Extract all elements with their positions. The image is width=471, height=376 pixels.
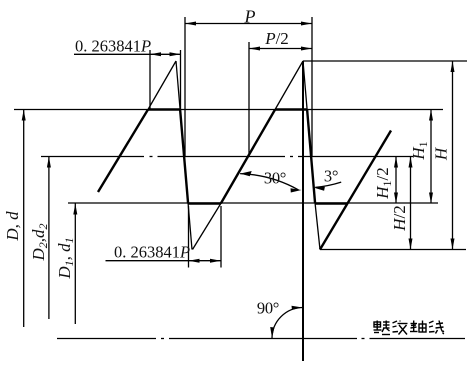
30deg flank third tooth down to sharp root [320, 131, 391, 250]
leader 0.263841P top [74, 53, 150, 55]
svg-text:D, d: D, d [3, 211, 22, 242]
svg-text:P/2: P/2 [264, 29, 289, 48]
thin extension 3deg from left apex [176, 61, 180, 110]
root flat left [188, 202, 221, 204]
leader 0.263841P bottom [106, 260, 189, 262]
dimension D2,d2 vertical [48, 157, 50, 320]
arrowheads 0.263841P top [150, 52, 161, 56]
arrowheads H [451, 61, 455, 72]
svg-text:0. 263841P: 0. 263841P [114, 243, 190, 262]
major diameter line [14, 109, 443, 111]
arrowhead D,d [22, 110, 26, 121]
thin vee left root (3deg side) [188, 204, 192, 250]
char zhou [410, 321, 426, 333]
dimension line 0.263841P bottom [189, 260, 222, 262]
extension crest flat left [149, 50, 151, 110]
dimension line 0.263841P top [150, 53, 181, 55]
arrowheads 0.263841P bottom [189, 259, 200, 263]
extension crest flat right [180, 50, 182, 110]
arrowhead 30deg arc left [240, 171, 252, 176]
char wen [393, 321, 408, 335]
thin extension 30deg to right apex [275, 61, 303, 110]
dimension H1/2 vertical [395, 157, 397, 204]
thread profile: left partial 30deg flank [98, 110, 148, 193]
extension root flat left [188, 206, 190, 268]
crest flat left tooth [148, 108, 180, 110]
30deg flank middle tooth [221, 110, 275, 204]
arrowhead 3deg arc [314, 187, 325, 191]
dimension H vertical [452, 61, 454, 250]
extension line P left [184, 17, 186, 157]
svg-text:H/2: H/2 [390, 205, 409, 232]
arrowheads H1/2 [394, 157, 398, 168]
arrowheads H/2 [409, 157, 413, 168]
char xian [429, 321, 444, 335]
svg-text:0. 263841P: 0. 263841P [75, 37, 151, 56]
arrowhead 30deg arc right [291, 188, 302, 192]
dimension D,d vertical [23, 110, 25, 328]
pitch line (dash-dot) [41, 156, 413, 158]
arrowheads P/2 [249, 47, 260, 51]
svg-text:H: H [432, 146, 451, 161]
root flat right [315, 202, 348, 204]
dimension H/2 vertical [410, 157, 412, 250]
char luo [374, 321, 391, 335]
thin vee right root (3deg side) [315, 204, 320, 250]
extension root flat right [220, 206, 222, 268]
thin extension 30deg to left apex [148, 61, 176, 110]
3deg flank right tooth [307, 110, 315, 204]
svg-text:3°: 3° [324, 167, 338, 186]
arc 90deg angle [272, 308, 303, 339]
arrowhead D2,d2 [47, 157, 51, 168]
arc 30deg angle [240, 174, 298, 190]
arrowhead 90deg arc bottom [270, 327, 274, 338]
extension line P/2 left [248, 42, 250, 157]
svg-text:P: P [244, 7, 256, 27]
dimension line P [185, 23, 312, 25]
thin vee left root (30deg side) [193, 204, 221, 250]
arc 3deg angle [315, 182, 341, 187]
label luo-wen-zhou-xian (CJK drawn strokes) [374, 321, 445, 335]
arrowheads P [185, 22, 196, 26]
sharp root reference line [320, 249, 466, 251]
svg-text:D1, d1: D1, d1 [55, 237, 76, 279]
arrowhead D1,d1 [73, 204, 77, 215]
wire: 90-degree vertical through right apex [302, 61, 304, 361]
dimension H1 vertical [430, 110, 432, 204]
dimension D1,d1 vertical [74, 204, 76, 325]
svg-text:30°: 30° [264, 169, 286, 188]
dimension line P/2 [249, 48, 312, 50]
thin extension 3deg from right apex [303, 61, 307, 110]
thread axis line (dash-dot) [57, 338, 465, 340]
sharp crest reference line [303, 60, 467, 62]
arrowheads H1 [429, 110, 433, 121]
minor diameter line [68, 202, 438, 204]
extension line P right [311, 17, 313, 157]
3deg flank left tooth [180, 110, 188, 204]
crest flat right tooth [275, 108, 307, 110]
svg-text:90°: 90° [257, 299, 279, 318]
arrowhead 90deg arc top [292, 306, 303, 310]
